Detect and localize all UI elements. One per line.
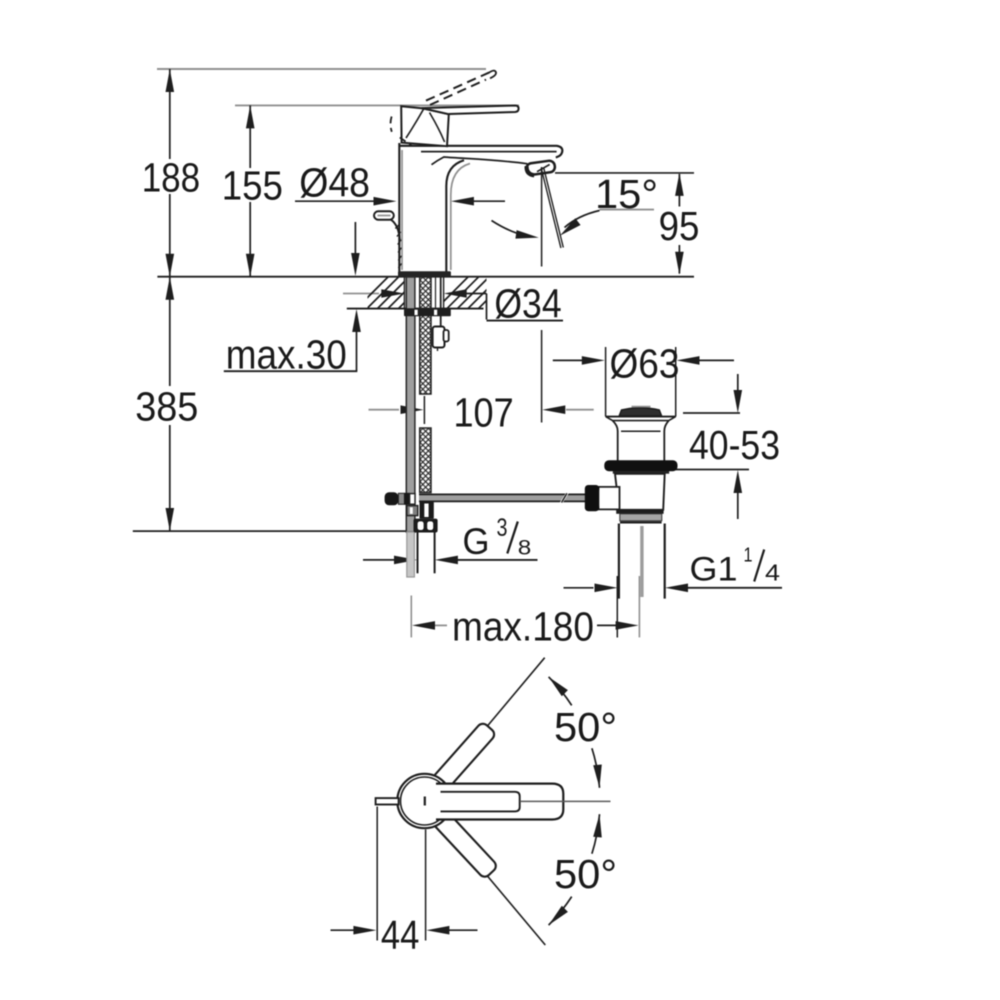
svg-text:188: 188 — [142, 155, 201, 201]
counter bottom line — [347, 308, 484, 310]
pin on left — [376, 798, 399, 804]
coupling dark band — [616, 510, 663, 514]
horizontal centerline — [520, 800, 611, 802]
flange neck — [613, 421, 618, 461]
50 degree arc upper — [549, 677, 572, 706]
tailpipe — [618, 524, 620, 599]
50 degree reference line upper — [440, 658, 545, 783]
coupling gray nut — [620, 514, 662, 521]
svg-text:155: 155 — [222, 163, 283, 209]
svg-text:95: 95 — [659, 203, 700, 249]
flange top face — [606, 416, 676, 418]
svg-text:107: 107 — [454, 390, 514, 436]
svg-text:8: 8 — [518, 537, 532, 560]
385 dimension — [169, 277, 171, 386]
locknut — [404, 308, 451, 316]
body transition curve — [432, 157, 528, 165]
44 dimension — [376, 807, 378, 941]
rod left end cap — [385, 492, 399, 505]
horizontal pop-up rod — [419, 494, 587, 501]
lever inner contour — [441, 792, 520, 812]
svg-text:Ø48: Ø48 — [299, 160, 370, 206]
diameter 34 dimension — [343, 293, 379, 295]
155 dimension — [235, 104, 519, 106]
threaded shank lower — [420, 428, 431, 493]
faucet body fill — [399, 146, 446, 272]
body circle inner ring — [401, 777, 449, 825]
drain pull rod knob — [374, 211, 394, 219]
G 3/8 label — [363, 559, 396, 561]
svg-text:44: 44 — [381, 912, 420, 958]
svg-text:50°: 50° — [554, 704, 617, 750]
counter top line — [157, 276, 694, 278]
50 degree reference line lower — [440, 820, 545, 946]
svg-text:Ø34: Ø34 — [494, 281, 561, 327]
vertical reference under outlet — [541, 167, 543, 267]
95 dimension — [555, 172, 694, 174]
plug dome — [619, 408, 661, 416]
40-53 dimension — [683, 412, 740, 414]
outlet aerator — [526, 160, 556, 175]
counter hatching right — [435, 275, 512, 310]
center mark — [424, 797, 426, 806]
pull rod curve into body — [391, 220, 400, 240]
svg-text:4: 4 — [765, 560, 780, 586]
threaded shank upper — [420, 277, 431, 394]
max.180 dimension — [410, 596, 412, 638]
counter hole edges — [403, 277, 405, 309]
raised handle dashed lines — [426, 73, 489, 101]
rotated lever position upper — [431, 721, 497, 792]
diameter 63 dimension — [605, 347, 607, 417]
svg-text:3: 3 — [497, 514, 508, 542]
body circle outer — [397, 774, 451, 828]
G3/8 connector tube — [417, 533, 434, 574]
svg-text:Ø63: Ø63 — [610, 341, 680, 387]
pop-up lever fitting on drain — [598, 487, 620, 510]
max.30 dimension — [354, 222, 356, 256]
flange underside — [613, 471, 669, 474]
supply hose vertical — [406, 277, 415, 532]
hex nut — [414, 519, 438, 533]
svg-text:50°: 50° — [554, 851, 617, 897]
drain body — [615, 474, 665, 510]
body right edge with corner curve to spout underside — [446, 160, 464, 271]
svg-text:G: G — [463, 521, 490, 562]
lever top view — [436, 784, 563, 820]
188 dimension — [157, 68, 486, 70]
handle lever — [422, 106, 519, 115]
shank guide tube — [440, 277, 442, 327]
spout top face — [399, 146, 562, 158]
counter hatching left — [355, 275, 432, 310]
svg-text:385: 385 — [135, 384, 198, 430]
body left edge — [398, 143, 400, 272]
107 dimension — [423, 396, 425, 424]
tee fitting — [420, 502, 434, 519]
50 degree arc lower — [592, 814, 600, 854]
body left inner shade — [401, 150, 403, 270]
svg-text:max.180: max.180 — [452, 604, 594, 650]
adjustment knob — [585, 485, 600, 511]
G 1 1/4 label — [564, 587, 594, 589]
pop-up rod holder fitting — [433, 327, 445, 348]
body right outer shade — [451, 164, 470, 271]
svg-text:1: 1 — [744, 545, 753, 567]
water stream lines — [541, 168, 561, 248]
svg-text:40-53: 40-53 — [689, 422, 780, 468]
rotated lever position lower — [432, 810, 499, 880]
handle cube — [401, 106, 449, 146]
svg-text:G1: G1 — [690, 551, 738, 589]
rubber gasket — [604, 460, 677, 471]
base plate — [398, 271, 451, 277]
